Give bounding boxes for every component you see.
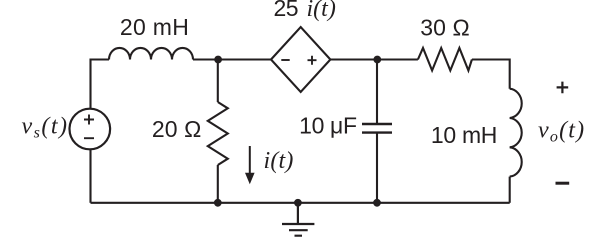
wire resistor R1 bottom to bottom rail [217, 165, 219, 203]
svg-text:10 mH: 10 mH [431, 122, 497, 148]
svg-text:i(t): i(t) [264, 148, 294, 174]
plus sign inside diamond [308, 56, 317, 65]
capacitor C1 10 uF plates [362, 124, 392, 133]
node A junction dot (top of 20 ohm branch) [214, 56, 222, 64]
plus terminal mark for vo(t) [557, 82, 569, 94]
minus terminal mark for vo(t) [556, 182, 570, 185]
label vo(t) [538, 118, 585, 146]
junction dot bottom of capacitor branch [373, 199, 381, 207]
inductor L2 10 mH (vertical, 3 humps bulging right) [510, 89, 522, 177]
svg-text:20 Ω: 20 Ω [152, 116, 202, 142]
label 20 mH [120, 14, 189, 40]
minus sign inside diamond [281, 59, 289, 61]
minus sign inside source circle [84, 137, 94, 139]
resistor R2 30 ohm (horizontal zigzag) [418, 48, 472, 71]
label 10 mH [431, 122, 497, 148]
wire node A down to resistor R1 [217, 60, 219, 103]
label 10 uF [299, 113, 357, 139]
label 25 i(t) [274, 0, 336, 22]
resistor R1 20 ohm (vertical zigzag) [208, 102, 228, 165]
wire inductor L2 bottom to bottom-right corner [509, 177, 511, 203]
svg-text:vs(t): vs(t) [22, 114, 69, 142]
bottom rail wire [91, 202, 510, 204]
inductor L1 20 mH (4 humps) [109, 48, 193, 60]
plus sign inside source circle [84, 115, 94, 125]
wire diamond right vertex to node B [330, 58, 418, 60]
wire node B down to capacitor top plate [376, 60, 378, 125]
label 20 ohm [152, 116, 202, 142]
wire bottom-left corner up to source bottom [89, 149, 91, 202]
wire capacitor bottom plate to bottom rail [376, 133, 378, 203]
svg-text:i(t): i(t) [307, 0, 336, 22]
svg-text:10 μF: 10 μF [299, 113, 357, 139]
junction dot bottom of R1 branch [214, 199, 222, 207]
svg-text:30 Ω: 30 Ω [420, 15, 470, 41]
node B junction dot (top of capacitor branch) [373, 56, 381, 64]
current arrow i(t) pointing down [245, 146, 255, 184]
wire inductor to diamond left vertex [193, 58, 271, 60]
svg-text:20 mH: 20 mH [120, 14, 189, 40]
label 30 ohm [420, 15, 470, 41]
dependent source U1 diamond 25 i(t) [271, 27, 330, 92]
voltage source V1 vs(t) circle [70, 109, 111, 150]
label vs(t) [22, 114, 69, 142]
label i(t) [264, 148, 294, 174]
ground symbol [282, 203, 314, 236]
wire resistor R2 to top-right corner and down to inductor L2 [472, 60, 510, 89]
junction dot ground tap [294, 199, 302, 207]
svg-text:25: 25 [274, 0, 299, 21]
wire top-left: left rail top corner to inductor start [91, 60, 110, 109]
svg-text:vo(t): vo(t) [538, 118, 585, 146]
